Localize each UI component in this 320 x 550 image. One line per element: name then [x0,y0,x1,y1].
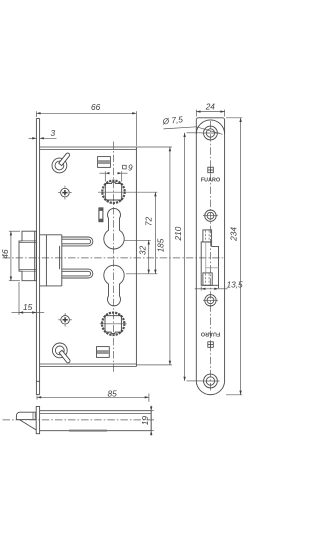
svg-text:Ø 7,5: Ø 7,5 [161,114,184,127]
top view centerline [3,419,155,421]
dim 185 [136,147,172,365]
top view faceplate bar [36,407,39,434]
top view latch with bevel [16,412,36,430]
lower screw head symbol [58,313,72,327]
upper square follower (knurled circle + square 9 hole) [98,181,157,203]
dim 15 [12,282,45,315]
upper screw head symbol [58,186,72,200]
label square 9 [123,162,133,172]
plate hole 3 [203,295,218,306]
upper spring detail (banded rectangle) [98,157,111,168]
plate top inner arc [196,120,224,134]
strike plate outline [196,118,224,395]
top view body [40,411,152,432]
svg-text:66: 66 [91,102,101,112]
svg-text:185: 185 [156,238,166,252]
plate logo top [208,167,214,173]
dim 72 [126,192,157,274]
dim 234 [226,118,242,395]
dim 13,5 [195,279,243,290]
leader diameter 7.5 [161,114,222,134]
svg-text:15: 15 [23,302,33,312]
latch window cutout [201,230,219,288]
dim 66 [36,102,136,146]
plate hole bottom (countersunk) [202,374,220,388]
svg-text:32: 32 [137,245,147,255]
plate hole 2 [203,210,218,221]
square-9 dimension arrows [100,171,128,181]
fork prong upper [62,237,93,246]
fork prong lower [62,269,93,278]
lower square follower [100,313,127,335]
deadbolt head (left of faceplate) [19,231,36,281]
svg-text:46: 46 [0,249,10,259]
svg-text:FUARO: FUARO [201,330,220,336]
dim 24 [196,101,224,116]
dim 3 [29,128,57,139]
svg-text:234: 234 [229,227,239,242]
vertical centerline of case [113,142,115,373]
svg-text:24: 24 [205,101,216,111]
small pin detail [99,208,103,222]
dim 85 [37,389,149,402]
svg-text:72: 72 [144,217,154,227]
plate logo bottom [208,342,214,348]
dim 46 [0,231,20,281]
upper thumbturn knob symbol [52,153,70,173]
faceplate front edge (double vertical line) [36,118,39,394]
dim 210 [173,133,202,381]
dim 32 [125,240,151,273]
lower spring detail (banded rectangle) [97,347,110,358]
svg-text:9: 9 [128,162,133,172]
plate hole top (countersunk) [202,126,220,140]
svg-text:FUARO: FUARO [201,177,220,183]
lower keyhole cutout [104,265,124,306]
svg-text:3: 3 [51,128,56,138]
svg-text:210: 210 [173,226,183,241]
lock case outline [40,147,137,367]
deadbolt body inside case [40,235,62,286]
svg-text:19: 19 [140,416,150,426]
dim 19 [140,406,154,436]
upper keyhole cutout [104,208,124,249]
horizontal main centerline (full width) [3,257,225,259]
svg-text:85: 85 [108,389,118,399]
lower thumbturn knob symbol [52,343,70,363]
plate centerline [209,121,211,392]
